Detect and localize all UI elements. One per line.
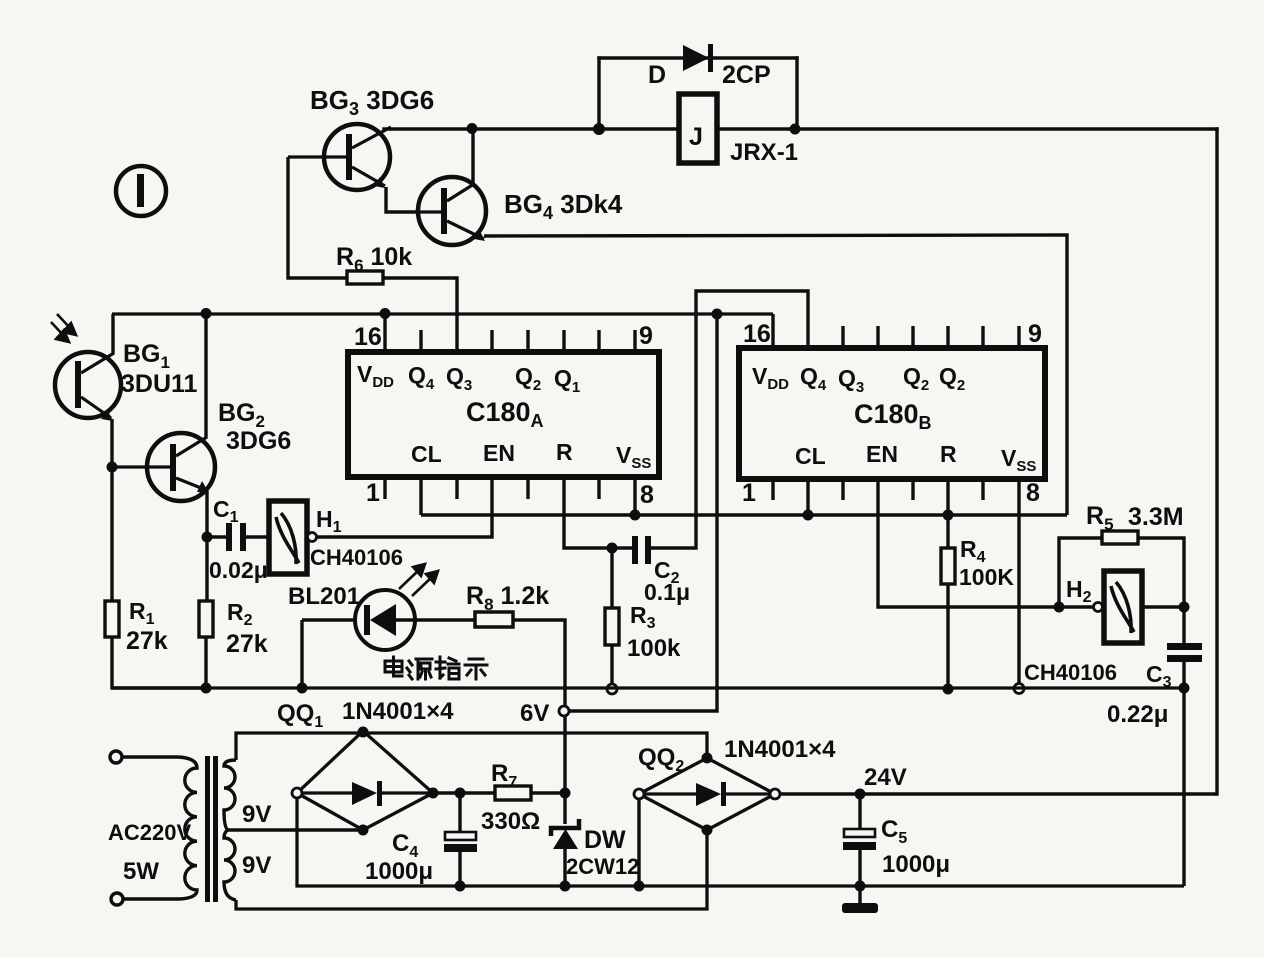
svg-text:AC220V: AC220V xyxy=(108,820,191,845)
node dot R2 on ground bus xyxy=(201,683,212,694)
svg-text:5W: 5W xyxy=(123,858,159,885)
pin 16 C180B riser from bus xyxy=(771,314,774,348)
svg-text:R: R xyxy=(940,441,957,467)
wire VSS pin8 C180A down xyxy=(633,477,636,515)
node circle R3 on ground bus xyxy=(607,684,617,694)
resistor R4 100K xyxy=(941,548,955,584)
svg-text:16: 16 xyxy=(354,323,382,351)
wire EN pin C180B down to H2 line xyxy=(878,479,1093,607)
svg-text:BG3 3DG6: BG3 3DG6 xyxy=(310,85,434,119)
IC U1 C180A xyxy=(348,352,659,477)
node dot H2 output xyxy=(1179,602,1190,613)
LED BL201 xyxy=(355,590,415,650)
svg-text:1N4001×4: 1N4001×4 xyxy=(342,698,454,725)
ground symbol xyxy=(842,886,878,913)
node dot R5 loop on H2 input xyxy=(1054,602,1065,613)
svg-text:R6 10k: R6 10k xyxy=(336,243,412,275)
wire terminal leads xyxy=(122,755,178,758)
node dot QQ2 bottom xyxy=(702,825,713,836)
wire BG2 emitter down xyxy=(205,491,208,537)
wire R pin C180A down to C2 node xyxy=(564,477,633,548)
char dian xyxy=(385,661,402,672)
svg-text:100K: 100K xyxy=(959,564,1014,590)
node 6V terminal circle xyxy=(559,706,569,716)
capacitor C1 0.02u xyxy=(207,523,269,551)
svg-text:330Ω: 330Ω xyxy=(481,808,540,835)
svg-text:1N4001×4: 1N4001×4 xyxy=(724,736,836,763)
wire 6V to VDD riser xyxy=(569,314,717,711)
node dot bus BG2 collector xyxy=(201,308,212,319)
transistor BG1 3DU11 phototransistor xyxy=(55,352,121,421)
char yuan xyxy=(409,661,412,665)
node dot QQ1 top xyxy=(358,727,369,738)
capacitor C2 0.1u xyxy=(632,536,651,564)
terminal top xyxy=(110,751,122,763)
relay J JRX-1 xyxy=(679,94,717,163)
svg-text:2CW12: 2CW12 xyxy=(566,854,639,879)
node dot pin8 A on feedback line xyxy=(630,510,641,521)
light arrows into BG1 xyxy=(51,314,76,342)
wire 24V rail xyxy=(780,792,1217,795)
svg-text:DW: DW xyxy=(584,826,626,854)
wire BG3 base to R6 xyxy=(288,157,347,278)
svg-text:3.3M: 3.3M xyxy=(1128,503,1184,531)
wire R6 to Q3 pin of C180A xyxy=(383,278,457,352)
secondary winding 9V bottom xyxy=(224,830,236,900)
svg-text:3DG6: 3DG6 xyxy=(226,427,291,455)
svg-text:1: 1 xyxy=(366,479,380,507)
capacitor C4 1000u electrolytic xyxy=(444,793,477,886)
wire H2 output xyxy=(1143,605,1184,608)
svg-text:0.02μ: 0.02μ xyxy=(209,557,268,583)
svg-text:J: J xyxy=(689,123,703,151)
svg-text:3DU11: 3DU11 xyxy=(121,370,198,398)
resistor R7 330ohm xyxy=(495,786,531,800)
LED emission arrows xyxy=(399,564,438,596)
wire R pin C180B down through feedback to R4 xyxy=(946,479,949,548)
diode D 2CP xyxy=(683,44,713,72)
wire H1 output to EN pin C180A xyxy=(317,477,492,537)
wire BG4 collector riser xyxy=(471,129,474,183)
node circle pin8 B on ground bus xyxy=(1014,684,1024,694)
wire QQ1 right to R7 xyxy=(433,791,495,794)
svg-text:9: 9 xyxy=(1028,320,1042,348)
wire feedback line CL to right riser xyxy=(421,513,1067,516)
node dot top rail / BG4 collector xyxy=(467,123,478,134)
wire C2 right up and over to Q4 pin C180B xyxy=(651,291,808,548)
wire BG4 emitter feedback rail xyxy=(484,235,1067,515)
svg-text:9: 9 xyxy=(639,322,653,350)
resistor R2 27k xyxy=(199,601,213,637)
bridge rectifier QQ2 1N4001x4 xyxy=(639,758,775,830)
svg-text:BL201: BL201 xyxy=(288,583,360,610)
node dot C4 top xyxy=(455,788,466,799)
node dot QQ1 bottom xyxy=(358,825,369,836)
transformer AC220V 5W xyxy=(110,751,236,905)
svg-text:R: R xyxy=(556,439,573,465)
secondary winding 9V top xyxy=(224,760,236,830)
wire VDD bus xyxy=(112,312,773,315)
inverter H2 CH40106 xyxy=(1094,571,1143,643)
svg-text:JRX-1: JRX-1 xyxy=(730,139,798,166)
node dot R pin B on feedback line xyxy=(943,510,954,521)
resistor R1 27k xyxy=(105,601,119,637)
node dot bus pin16 C180A xyxy=(380,308,391,319)
char shi xyxy=(469,658,483,661)
svg-text:EN: EN xyxy=(483,440,515,466)
node dot CL B on feedback line xyxy=(803,510,814,521)
wire node to R2 xyxy=(205,537,208,601)
transistor Q BG3 3DG6 xyxy=(288,124,391,190)
capacitor C3 0.22u xyxy=(1167,607,1202,886)
svg-text:9V: 9V xyxy=(242,852,271,879)
IC U2 C180B xyxy=(739,348,1045,479)
wire ground bus xyxy=(112,686,1184,689)
wire R1 to ground bus xyxy=(112,637,206,688)
svg-text:CL: CL xyxy=(411,441,442,467)
wire CL pin C180A down to feedback line xyxy=(419,477,422,515)
svg-text:8: 8 xyxy=(1026,479,1040,507)
svg-text:CL: CL xyxy=(795,443,826,469)
resistor R6 10k xyxy=(347,271,383,284)
svg-text:R8 1.2k: R8 1.2k xyxy=(466,582,549,614)
node dot C4 bottom xyxy=(455,881,466,892)
svg-text:1000μ: 1000μ xyxy=(882,851,950,878)
node dot R4 ground bus xyxy=(943,684,954,695)
wire main top rail left of relay xyxy=(384,127,679,130)
svg-text:0.22μ: 0.22μ xyxy=(1107,701,1168,728)
node dot C5 bottom xyxy=(855,881,866,892)
node dot QQ1 right xyxy=(428,788,439,799)
wire R2 to ground bus xyxy=(204,637,207,688)
node dot diode loop left xyxy=(593,123,605,135)
wire diode loop left vertical xyxy=(597,58,600,129)
bridge rectifier QQ1 1N4001x4 xyxy=(297,731,433,830)
wire VSS pin8 C180B down to bus xyxy=(1017,479,1020,684)
svg-text:0.1μ: 0.1μ xyxy=(644,579,690,605)
primary winding xyxy=(178,757,197,899)
wire secondary top to QQ1 rail xyxy=(236,733,707,760)
svg-text:D: D xyxy=(648,61,666,89)
wire secondary bottom to QQ2 bottom xyxy=(236,830,707,909)
node dot DW bottom xyxy=(560,881,571,892)
wire node down to R1 xyxy=(110,467,113,601)
wire main top rail right of relay to right edge xyxy=(717,127,1217,130)
wire QQ1 left down to minus bus xyxy=(297,798,1184,886)
svg-text:CH40106: CH40106 xyxy=(310,545,403,570)
node dot C2-R3 xyxy=(607,543,618,554)
transistor Q BG4 3Dk4 xyxy=(417,177,486,245)
node dot QQ2 left bus xyxy=(634,881,645,892)
node dot diode loop right xyxy=(790,124,801,135)
core xyxy=(205,756,210,902)
terminal bottom xyxy=(111,893,123,905)
wire to LED xyxy=(302,618,355,621)
svg-text:24V: 24V xyxy=(864,764,907,791)
svg-text:16: 16 xyxy=(743,320,771,348)
wire BG1 emitter down to BG2 base node xyxy=(110,419,113,467)
wire center tap to QQ1 bottom vertex xyxy=(228,828,363,831)
wire left vertical bus-BG1 collector xyxy=(111,314,114,354)
wire QQ2 left down to minus bus xyxy=(637,799,640,886)
svg-text:27k: 27k xyxy=(126,627,168,655)
transistor BG2 3DG6 xyxy=(112,433,215,501)
node circle QQ1 left xyxy=(292,788,302,798)
node dot C3 ground bus xyxy=(1179,683,1190,694)
resistor R3 100k xyxy=(610,548,613,608)
wire BG3 emitter to BG4 base xyxy=(386,187,417,212)
svg-text:27k: 27k xyxy=(226,630,268,658)
node dot DW top xyxy=(560,788,571,799)
svg-text:9V: 9V xyxy=(242,801,271,828)
svg-text:EN: EN xyxy=(866,441,898,467)
wire diode loop right vertical xyxy=(795,58,798,129)
node dot bus 6V riser xyxy=(712,309,723,320)
svg-text:BG4 3Dk4: BG4 3Dk4 xyxy=(504,189,623,223)
node dot QQ2 top xyxy=(702,753,713,764)
wire CL pin C180B down to feedback line xyxy=(806,479,809,515)
resistor R8 1.2k xyxy=(415,618,475,621)
node dot C1 xyxy=(202,532,213,543)
node circle QQ2 left xyxy=(634,789,644,799)
pin stubs top C180A xyxy=(421,330,635,352)
inverter H1 CH40106 xyxy=(269,501,317,574)
pin stubs top C180B xyxy=(843,326,1019,348)
wire R8 to 6V node xyxy=(513,620,565,794)
svg-text:1000μ: 1000μ xyxy=(365,858,433,885)
node dot LED chain on ground bus xyxy=(297,683,308,694)
svg-text:8: 8 xyxy=(640,481,654,509)
node dot BG2 base xyxy=(107,462,118,473)
pin stubs bottom C180A xyxy=(385,477,599,499)
svg-text:2CP: 2CP xyxy=(722,61,771,89)
wire right edge vertical to 24V rail xyxy=(1215,129,1218,794)
pin stubs bottom C180B xyxy=(773,479,983,500)
svg-text:CH40106: CH40106 xyxy=(1024,660,1117,685)
pin 16 C180A xyxy=(383,314,386,352)
zener DW 2CW12 xyxy=(551,793,579,886)
resistor R5 3.3M loop xyxy=(1059,538,1102,607)
label power indicator (Chinese) xyxy=(385,657,487,679)
char zhi xyxy=(439,657,442,678)
svg-text:100k: 100k xyxy=(627,635,681,662)
node dot C5 top xyxy=(855,789,866,800)
node circle QQ2 right xyxy=(770,789,780,799)
wire BG2 collector riser xyxy=(204,314,207,438)
LED BL201 chain riser xyxy=(300,620,303,688)
figure number I xyxy=(116,166,166,216)
capacitor C5 1000u electrolytic xyxy=(843,794,876,886)
svg-text:6V: 6V xyxy=(520,700,549,727)
wire diode loop top xyxy=(599,56,797,59)
svg-text:1: 1 xyxy=(742,479,756,507)
